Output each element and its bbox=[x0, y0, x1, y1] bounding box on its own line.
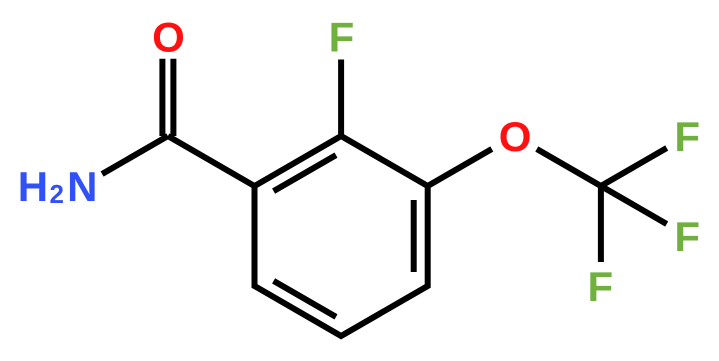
wire ring C3=C4 inner double line bbox=[411, 200, 417, 272]
wire C7=O1 carbonyl double bond line 2 bbox=[170, 59, 176, 136]
wire ring C5=C6 inner double line bbox=[274, 281, 336, 317]
svg-text:O: O bbox=[499, 113, 532, 160]
wire C3-O2 bond bbox=[428, 149, 492, 186]
wire benzene ring hexagon C1-C2-C3-C4-C5-C6 bbox=[255, 136, 428, 336]
wire CF3-F4 bond bbox=[598, 186, 604, 262]
svg-text:H: H bbox=[18, 163, 48, 210]
svg-text:F: F bbox=[674, 213, 700, 260]
svg-text:O: O bbox=[152, 13, 185, 60]
wire ring C1=C2 inner double line bbox=[274, 155, 336, 191]
svg-text:N: N bbox=[67, 163, 97, 210]
wire N-C7 amide bond bbox=[102, 136, 168, 174]
svg-text:F: F bbox=[587, 263, 613, 310]
wire C2-F1 bond bbox=[338, 60, 344, 137]
wire C7-C1 bond bbox=[168, 136, 255, 186]
wire O2-CF3 bond bbox=[537, 149, 601, 186]
svg-text:F: F bbox=[329, 13, 355, 60]
wire CF3-F3 bond bbox=[601, 186, 667, 224]
svg-text:2: 2 bbox=[50, 179, 64, 209]
wire CF3-F2 bond bbox=[601, 148, 667, 186]
svg-text:F: F bbox=[674, 113, 700, 160]
wire C7=O1 carbonyl double bond line 1 bbox=[159, 59, 165, 136]
